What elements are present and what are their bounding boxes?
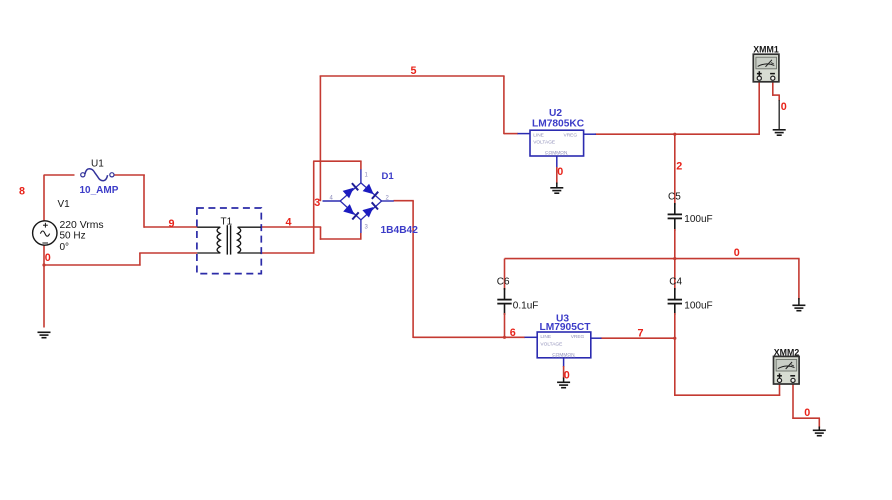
svg-text:C4: C4 bbox=[669, 277, 682, 288]
svg-text:3: 3 bbox=[314, 197, 320, 209]
svg-text:3: 3 bbox=[365, 225, 369, 231]
svg-text:0.1uF: 0.1uF bbox=[513, 301, 539, 312]
svg-text:100uF: 100uF bbox=[684, 301, 712, 312]
svg-text:U2: U2 bbox=[549, 108, 562, 119]
svg-text:0: 0 bbox=[804, 407, 810, 419]
svg-text:9: 9 bbox=[169, 218, 175, 230]
svg-text:220 Vrms: 220 Vrms bbox=[60, 220, 104, 231]
svg-text:C5: C5 bbox=[668, 191, 681, 202]
svg-text:0°: 0° bbox=[60, 242, 70, 253]
svg-text:2: 2 bbox=[676, 161, 682, 173]
svg-text:50 Hz: 50 Hz bbox=[60, 231, 86, 242]
svg-text:100uF: 100uF bbox=[684, 214, 712, 225]
svg-text:0: 0 bbox=[564, 370, 570, 382]
svg-text:LINE: LINE bbox=[540, 334, 551, 340]
svg-text:XMM2: XMM2 bbox=[774, 348, 800, 358]
svg-text:5: 5 bbox=[411, 65, 417, 77]
svg-text:1: 1 bbox=[365, 173, 369, 179]
svg-text:4: 4 bbox=[286, 216, 292, 228]
svg-text:0: 0 bbox=[781, 101, 787, 113]
svg-text:VOLTAGE: VOLTAGE bbox=[540, 342, 562, 348]
svg-text:LM7805KC: LM7805KC bbox=[532, 119, 585, 130]
svg-text:0: 0 bbox=[734, 247, 740, 259]
svg-text:VREG: VREG bbox=[564, 132, 578, 138]
svg-text:LINE: LINE bbox=[533, 132, 544, 138]
svg-text:0: 0 bbox=[557, 166, 563, 178]
svg-text:1B4B42: 1B4B42 bbox=[381, 225, 419, 236]
svg-text:C6: C6 bbox=[497, 277, 510, 288]
svg-text:7: 7 bbox=[638, 328, 644, 340]
svg-text:V1: V1 bbox=[58, 199, 71, 210]
svg-text:T1: T1 bbox=[221, 217, 233, 228]
svg-text:VOLTAGE: VOLTAGE bbox=[533, 140, 555, 146]
svg-text:0: 0 bbox=[45, 252, 51, 264]
svg-text:10_AMP: 10_AMP bbox=[80, 185, 119, 196]
svg-text:LM7905CT: LM7905CT bbox=[540, 322, 592, 333]
svg-text:XMM1: XMM1 bbox=[753, 44, 779, 54]
svg-text:8: 8 bbox=[19, 186, 25, 198]
svg-text:U1: U1 bbox=[91, 159, 104, 170]
svg-text:VREG: VREG bbox=[571, 334, 585, 340]
svg-text:D1: D1 bbox=[382, 171, 395, 182]
svg-text:6: 6 bbox=[510, 327, 516, 339]
